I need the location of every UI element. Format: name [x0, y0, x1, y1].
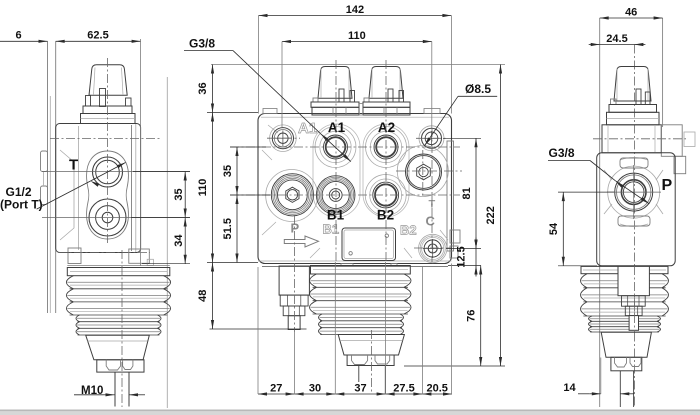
left view: M10 stud: [114, 372, 116, 406]
svg-text:142: 142: [346, 4, 364, 16]
left view: body boss contour around ports: [60, 150, 74, 240]
left view: centrelines: [107, 58, 109, 243]
right view: lower body: [597, 153, 676, 266]
svg-text:62.5: 62.5: [87, 30, 108, 42]
dim 24.5: [600, 44, 635, 46]
svg-text:27: 27: [270, 383, 282, 395]
centre view: carry-over port right: [406, 154, 442, 190]
centre view: body top edge bosses: [263, 109, 277, 114]
right view: lever rod lines: [619, 371, 621, 407]
svg-text:27.5: 27.5: [393, 383, 414, 395]
right view: boot flange: [581, 266, 668, 273]
dim 142: [259, 15, 452, 17]
svg-text:222: 222: [485, 206, 497, 224]
svg-text:110: 110: [348, 30, 366, 42]
centre view: boot bottom cap: [347, 355, 394, 366]
svg-text:A2: A2: [378, 120, 395, 135]
right view: right flange: [661, 125, 682, 157]
projection line between left and centre views: [166, 77, 168, 408]
centre view: tie-rod stud assembly: [279, 266, 309, 295]
left view: cap collar: [83, 106, 132, 114]
centre view: body bottom feet: [341, 264, 353, 267]
right view: centreline: [633, 45, 635, 408]
centre view: centrelines: [335, 60, 337, 262]
dim 81: [475, 138, 477, 248]
right view: boot large folds: [581, 274, 588, 288]
svg-text:6: 6: [15, 30, 21, 42]
centre view: cap 2 prongs: [388, 89, 393, 102]
centre view: boot large folds: [310, 274, 317, 287]
svg-text:51.5: 51.5: [222, 218, 234, 239]
svg-text:B2: B2: [400, 223, 417, 238]
right view: extension line right: [662, 18, 664, 127]
left view: G1/2 port boss on plate: [41, 151, 48, 172]
dim 35 (left view): [184, 172, 186, 218]
left view: rubber boot small ribs: [76, 315, 80, 322]
left view: port boss peanut contour: [87, 151, 129, 239]
dim 46: [600, 17, 663, 19]
centre view: right flange: [447, 141, 454, 251]
bottom toolbar bar: [0, 410, 700, 415]
centre view: relief cap 2 dome: [369, 67, 403, 99]
svg-text:36: 36: [197, 82, 209, 94]
centre view: rubber boot flange: [311, 266, 411, 275]
svg-text:48: 48: [197, 290, 209, 302]
svg-text:C: C: [426, 214, 436, 229]
svg-text:110: 110: [197, 179, 209, 197]
centre view: cap 2 collar: [363, 102, 410, 107]
centre view: port B2: [365, 175, 406, 216]
svg-text:35: 35: [222, 165, 234, 177]
right view: body contours: [608, 166, 660, 218]
right view: relief cap dome: [614, 67, 651, 102]
svg-text:T: T: [69, 157, 78, 174]
left view: end plate: [47, 41, 49, 313]
svg-text:35: 35: [173, 188, 185, 200]
centre view: port hole top-left: [272, 128, 293, 149]
centre view: top face inner line: [261, 116, 449, 118]
svg-text:(Port T): (Port T): [0, 198, 43, 212]
svg-text:76: 76: [466, 310, 478, 322]
centre view: port B1: [316, 176, 355, 215]
right view: long extension line left: [599, 18, 601, 407]
dim 35 centre: [236, 147, 238, 195]
left view: relief cap dome: [89, 65, 127, 96]
svg-text:A1: A1: [328, 120, 346, 135]
top extension line over caps: [211, 64, 505, 66]
right view: port P circles: [615, 173, 653, 211]
left view: boot top flange: [67, 268, 170, 276]
dim 6 (top left): [0, 40, 48, 42]
svg-text:12.5: 12.5: [456, 246, 468, 267]
left view: body bottom flange blocks: [68, 248, 81, 264]
right view: cap collar: [609, 105, 657, 113]
dim 34 (left view): [184, 218, 186, 264]
centre view: plug bottom-right: [419, 234, 447, 262]
svg-text:20.5: 20.5: [426, 383, 447, 395]
dim 62.5: [56, 40, 141, 42]
svg-text:14: 14: [563, 382, 576, 394]
centre view: boot rods: [358, 366, 360, 383]
left view: rubber boot large folds: [66, 276, 73, 289]
svg-text:46: 46: [625, 7, 637, 19]
dim 48 bottom extension: [210, 328, 307, 330]
left view: valve body: [56, 124, 141, 253]
centre view: light interior contours: [313, 124, 360, 217]
right view: P centre cross: [633, 165, 635, 219]
dim 36: [212, 65, 214, 113]
svg-text:B2: B2: [377, 208, 394, 223]
centre view: cast flow arrow: [284, 236, 318, 247]
svg-text:P: P: [662, 177, 673, 194]
centre view: port A2: [366, 127, 407, 168]
right view: neck centreline: [593, 138, 686, 140]
right view: neck block: [602, 125, 661, 153]
centre view: relief cap 1 dome: [318, 67, 352, 99]
svg-text:34: 34: [173, 234, 185, 247]
centre view: boot small ribs: [319, 314, 323, 321]
svg-text:24.5: 24.5: [606, 33, 627, 45]
left view: boot bottom cap with nuts: [97, 360, 144, 372]
svg-text:30: 30: [309, 383, 321, 395]
svg-text:54: 54: [548, 222, 560, 235]
dim 54: [562, 192, 564, 266]
right view: boot cup: [601, 332, 651, 357]
dim 48: [212, 263, 214, 330]
centre view: bottom flange line: [262, 266, 448, 268]
centre view: name plate: [342, 228, 396, 261]
svg-text:P: P: [291, 221, 300, 236]
svg-text:M10: M10: [81, 385, 103, 397]
centre view: cap 1 collar: [311, 102, 359, 107]
dim 51.5: [236, 195, 238, 263]
centre view: port A1: [315, 127, 356, 168]
dim 110 top: [282, 41, 432, 43]
centre view: hole top-right (8.5): [422, 128, 442, 148]
centre view: boot cup: [338, 335, 404, 356]
centre view: inlet port bottom-left (ringed): [271, 174, 313, 216]
right view: boot bottom cap: [611, 357, 642, 371]
dim 76: [480, 266, 482, 367]
left view: port T circle: [93, 157, 123, 187]
left view: boot cup: [86, 335, 150, 360]
right view: boot small ribs: [589, 316, 593, 321]
right view: cap prongs: [636, 89, 641, 105]
left view: cap prongs: [86, 96, 91, 107]
left view: lower port circle: [89, 199, 126, 236]
svg-text:37: 37: [354, 383, 366, 395]
svg-text:G3/8: G3/8: [189, 37, 215, 51]
dim 12.5: [475, 249, 477, 266]
svg-text:A1: A1: [298, 120, 317, 137]
dim 222: [500, 65, 502, 367]
bottom dims 27 30 37 27.5 20.5: [258, 393, 295, 395]
svg-text:G3/8: G3/8: [549, 146, 575, 160]
centre view: bridge between caps: [359, 104, 362, 116]
centre view: cap 1 prongs: [339, 89, 344, 102]
svg-text:81: 81: [461, 187, 473, 199]
svg-text:Ø8.5: Ø8.5: [465, 82, 491, 96]
dim 110 left: [212, 113, 214, 263]
svg-text:B1: B1: [323, 222, 340, 237]
centre view: valve body: [258, 114, 452, 264]
right view: spool end block over boot: [618, 266, 649, 295]
bottom extension lines: [257, 267, 259, 394]
